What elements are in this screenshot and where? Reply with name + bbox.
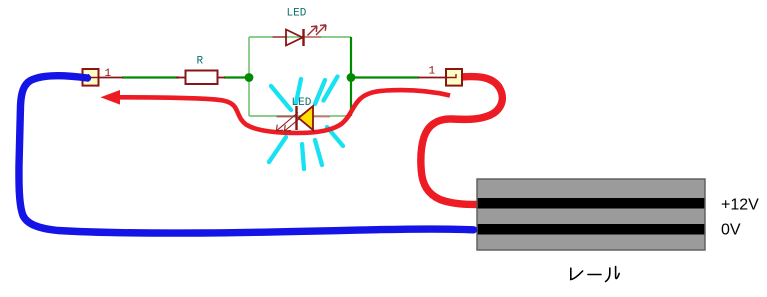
wire: light green loop box (LED parallel branch) [249,37,351,116]
wire: main horizontal net segments (dark green) [122,76,419,78]
LED D1 emission arrows [308,25,327,36]
current-direction annotation arrow (red) [118,90,450,133]
svg-text:R: R [197,56,204,68]
rail (power rail block) [477,179,705,250]
LED D1 (top) symbol [286,29,304,46]
wire: right vertical branch (dark green) [350,37,352,116]
resistor R [186,71,218,85]
junction node right [347,73,356,82]
rail conductor 0V [478,224,705,235]
pin wires through LEDs (pale red) [273,37,331,117]
connector J2 internal pin hook [446,74,456,78]
wire: thick blue return wire to 0V rail [19,76,474,233]
svg-text:1: 1 [105,68,112,80]
LED D2 (bottom, glowing) symbol [297,106,314,130]
connector J1 pin box (left) [83,69,99,86]
svg-text:+12V: +12V [721,197,759,214]
LED D2 emission arrows [277,113,303,132]
cyan light rays around glowing LED [269,77,343,170]
annotation arrow head [101,90,121,105]
junction node left [245,73,254,82]
svg-text:1: 1 [429,66,436,78]
svg-text:LED: LED [287,8,307,20]
svg-text:0V: 0V [721,222,741,239]
pin stub wires (dark red) [98,77,446,79]
connector J1 internal pin hook [89,74,99,78]
svg-text:LED: LED [292,97,312,109]
label レール (katakana drawn as strokes) [571,267,619,282]
connector J2 pin box (right) [446,69,462,86]
wire: thick red supply wire to +12V rail [421,77,503,205]
rail conductor +12V [478,198,705,209]
